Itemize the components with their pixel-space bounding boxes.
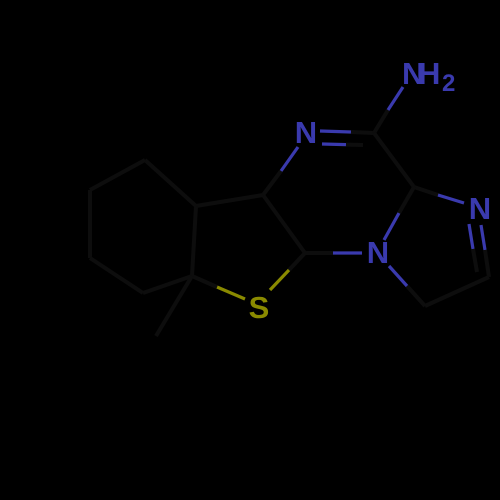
wire: bond N1=C2 inner line, N-half <box>469 224 473 249</box>
wire: bond N3=C4 inner line, C-half <box>346 143 363 147</box>
wire: bond C10a-C5 carbon <box>263 195 305 253</box>
wire: bond N1=C2 main line, C-half <box>485 250 489 277</box>
wire: bond Cb-Cc carbon <box>90 160 145 190</box>
wire: bond C5-S, S-half <box>270 270 289 290</box>
svg-text:H: H <box>418 56 440 91</box>
wire: bond Cd-Ce carbon <box>90 258 143 293</box>
wire: bond C7a stub carbon <box>156 276 192 336</box>
svg-text:2: 2 <box>442 70 455 97</box>
wire: bond C3-N4, N-half <box>389 266 407 286</box>
wire: bond C10a-C3a carbon <box>196 195 263 206</box>
wire: bond N1=C2 inner line, C-half <box>473 249 477 272</box>
wire: bond N4-C5, N-half <box>333 251 362 254</box>
wire: bond C5-S, C-half <box>289 253 305 270</box>
wire: bond C10b-N1, N-half <box>438 195 464 203</box>
wire: bond N4-C5, C-half <box>305 251 333 255</box>
wire: bond C10b-N1, C-half <box>414 187 438 195</box>
wire: bond C4-C10b carbon <box>374 133 414 187</box>
wire: bond Cc-Cd carbon <box>88 190 92 258</box>
svg-text:N: N <box>295 115 317 150</box>
svg-text:S: S <box>249 290 270 325</box>
wire: bond C2-C3 carbon <box>425 277 489 306</box>
wire: bond S-C7a, C-half <box>192 276 217 287</box>
wire: bond N3-C10a, C-half <box>263 171 281 195</box>
wire: bond N4-C10b, C-half <box>399 187 414 213</box>
wire: bond N3=C4 main line, C-half <box>351 132 374 133</box>
wire: bond S-C7a, S-half <box>217 287 245 299</box>
svg-text:N: N <box>367 235 389 270</box>
wire: bond Ce-C7a carbon <box>143 276 192 293</box>
wire: bond N3=C4 inner line, N-half <box>322 142 346 146</box>
wire: bond N3=C4 main line, N-half <box>320 131 351 132</box>
wire: bond N4-C10b, N-half <box>384 213 399 240</box>
wire: bond C4-NH2, C-half <box>374 110 388 133</box>
svg-text:N: N <box>469 191 491 226</box>
wire: bond C3a-C7a carbon <box>192 206 196 276</box>
wire: bond C3-N4, C-half <box>407 286 425 306</box>
wire: bond C4-NH2, N-half <box>388 87 403 110</box>
wire: bond N3-C10a, N-half <box>281 147 298 171</box>
wire: bond N1=C2 main line, N-half <box>481 225 485 250</box>
wire: bond C3a-Cb carbon <box>145 160 196 206</box>
